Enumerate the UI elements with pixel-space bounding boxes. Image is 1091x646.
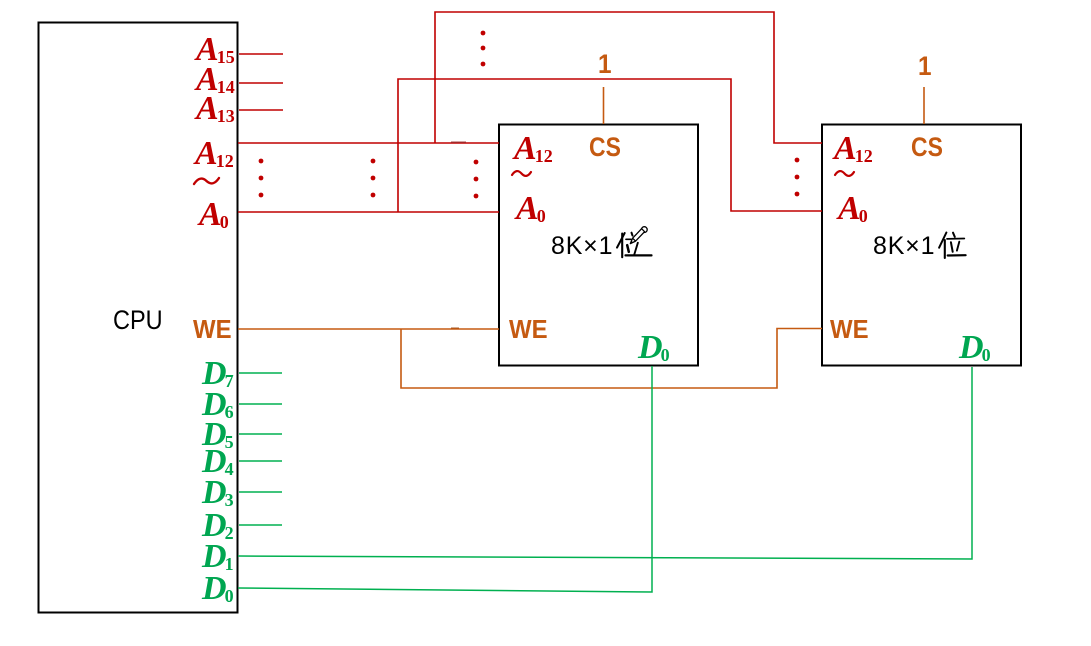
label A13 <box>196 92 235 126</box>
wire A14 stub <box>239 82 283 84</box>
label D3 <box>202 476 234 510</box>
label A12 at CPU <box>195 137 234 171</box>
label A12 at U2 <box>834 132 873 166</box>
label A0 at U1 <box>516 192 546 226</box>
tilde between A12 and A0 at U2 <box>835 171 854 176</box>
label D1 <box>202 540 234 574</box>
label A14 <box>196 63 235 97</box>
label D0 at U1 <box>638 331 670 365</box>
label 1 above U1 CS <box>598 51 612 78</box>
label A12 at U1 <box>514 132 553 166</box>
ellipsis dots group 3 <box>474 160 479 199</box>
ellipsis dots group 2 <box>371 159 376 198</box>
label WE at U1 <box>509 316 548 342</box>
label A0 at CPU <box>199 198 229 232</box>
ellipsis dots group 4 <box>795 158 800 197</box>
label capacity 8K×1 of U2 <box>873 234 935 259</box>
wire D6 stub <box>239 403 282 405</box>
label D0 at CPU <box>202 572 234 606</box>
wire A15 stub <box>239 53 283 55</box>
hanzi glyph 位 in U2 <box>939 233 966 259</box>
label D4 <box>202 445 234 479</box>
memory chip U2 box <box>822 125 1021 366</box>
wire D3 stub <box>239 491 282 493</box>
label 1 above U2 CS <box>918 53 932 80</box>
label CS at U1 <box>589 134 621 161</box>
wire A0 branch to U2 <box>398 79 822 212</box>
memory chip U1 box <box>499 125 698 366</box>
wire WE CPU to U1 <box>238 328 499 330</box>
label A15 <box>196 33 235 67</box>
wire D5 stub <box>239 433 282 435</box>
wire A13 stub <box>239 109 283 111</box>
hanzi glyph 位 in U1 <box>617 233 652 258</box>
ellipsis dots group 1 <box>259 159 264 198</box>
label capacity 8K×1 of U1 <box>551 234 613 259</box>
wire D1 to U2 D0 <box>238 367 972 559</box>
label WE at CPU <box>193 316 232 342</box>
tilde between A12 and A0 at U1 <box>512 171 531 176</box>
label D5 <box>202 418 234 452</box>
wire D7 stub <box>239 372 282 374</box>
label D6 <box>202 388 234 422</box>
junction overlap mark on A12 bus <box>451 141 466 143</box>
wire CS U1 stub <box>603 87 605 124</box>
label A0 at U2 <box>838 192 868 226</box>
label WE at U2 <box>830 316 869 342</box>
label D2 <box>202 509 234 543</box>
ellipsis dots group top <box>481 31 486 67</box>
wire D0 to U1 D0 <box>238 366 652 592</box>
junction overlap mark on WE bus <box>451 327 459 329</box>
wire D2 stub <box>239 524 282 526</box>
wire WE branch to U2 <box>401 329 822 389</box>
label CPU <box>113 307 163 334</box>
wire D4 stub <box>239 460 282 462</box>
label D0 at U2 <box>959 331 991 365</box>
wire A0 bus CPU to U1 <box>238 211 499 213</box>
pencil edit icon over U1 label <box>630 227 647 244</box>
wire A12 branch to U2 <box>435 12 822 143</box>
CPU box <box>39 23 238 613</box>
tilde between A12 and A0 at CPU <box>194 178 219 184</box>
label D7 <box>202 357 234 391</box>
label CS at U2 <box>911 134 943 161</box>
wire A12 bus CPU to U1 <box>238 142 499 144</box>
wire CS U2 stub <box>923 87 925 124</box>
